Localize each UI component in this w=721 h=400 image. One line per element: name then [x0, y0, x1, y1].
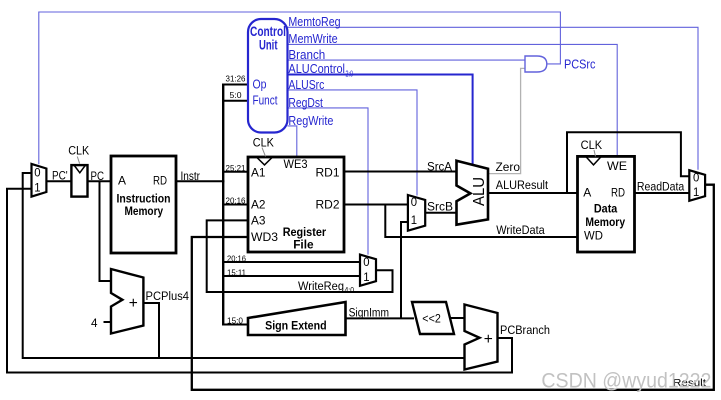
wire ALUResult to data memory A — [488, 192, 578, 194]
svg-text:WE3: WE3 — [284, 157, 308, 171]
wire PCSrc (blue: AND output to PC mux select) — [39, 12, 561, 164]
adder PCPlus4 — [111, 269, 143, 334]
svg-text:CLK: CLK — [581, 138, 603, 152]
wire SrcB (mux output to ALU) — [425, 212, 457, 214]
register PC — [71, 165, 87, 197]
svg-text:4:0: 4:0 — [345, 285, 355, 295]
svg-text:15:0: 15:0 — [227, 316, 243, 326]
svg-text:WD: WD — [584, 229, 603, 243]
svg-text:WE: WE — [607, 159, 627, 173]
wire ALUResult bypass over data memory to result mux input 0 — [567, 132, 689, 193]
svg-text:SrcB: SrcB — [427, 200, 453, 214]
svg-text:MemtoReg: MemtoReg — [288, 14, 340, 29]
wire Op stub 31:26 into control unit — [222, 84, 248, 86]
svg-text:Memory: Memory — [585, 215, 625, 229]
svg-text:CSDN @wyud1222: CSDN @wyud1222 — [541, 369, 711, 393]
svg-text:25:21: 25:21 — [226, 163, 246, 173]
wire WriteData (RD2 tap down to data memory WD) — [385, 205, 577, 238]
shifter left 2 — [412, 302, 454, 334]
svg-text:ALUSrc: ALUSrc — [288, 77, 324, 92]
svg-text:RD: RD — [611, 186, 625, 200]
svg-text:RD: RD — [153, 174, 167, 188]
svg-text:A: A — [583, 186, 592, 200]
svg-text:5:0: 5:0 — [230, 90, 242, 100]
svg-text:A1: A1 — [251, 166, 266, 180]
wire MemtoReg (blue: control to result mux select) — [288, 27, 699, 170]
wire RegWrite (blue: control to register file WE3) — [288, 126, 297, 157]
svg-text:Data: Data — [594, 201, 618, 215]
svg-text:RegDst: RegDst — [288, 95, 323, 110]
svg-text:RegWrite: RegWrite — [288, 113, 333, 128]
memory Instruction Memory — [111, 156, 176, 253]
svg-text:Op: Op — [253, 77, 267, 92]
svg-text:SrcA: SrcA — [427, 160, 453, 174]
wire A2 stub 20:16 — [222, 204, 248, 206]
wire PCBranch (branch adder output, bottom return to PC mux input 1) — [7, 189, 512, 373]
svg-text:ALU: ALU — [471, 177, 488, 206]
register file — [248, 157, 344, 252]
wire WriteReg loop (mux output back to A3) — [207, 220, 393, 292]
mux PC source (0/1) — [32, 164, 47, 197]
svg-text:0: 0 — [34, 165, 41, 179]
wire ALUControl 2:0 (blue bus: control to ALU) — [288, 75, 473, 165]
svg-text:0: 0 — [693, 170, 700, 184]
svg-text:PCBranch: PCBranch — [500, 323, 550, 337]
svg-text:A2: A2 — [251, 198, 266, 212]
svg-text:RD2: RD2 — [316, 198, 340, 212]
wire Instr (instruction memory RD output) — [176, 180, 225, 182]
wire MemWrite (blue: control to data memory WE) — [288, 44, 618, 156]
adder PCBranch — [465, 305, 498, 370]
mux WriteReg (0/1) — [360, 255, 376, 286]
svg-text:<<2: <<2 — [422, 312, 441, 326]
svg-text:Instruction: Instruction — [117, 191, 171, 205]
svg-text:PCPlus4: PCPlus4 — [146, 289, 190, 303]
svg-text:1: 1 — [34, 180, 40, 194]
wire constant 4 stub into PCPlus4 adder — [104, 321, 112, 323]
mux Result (0/1) — [689, 170, 705, 201]
svg-text:20:16: 20:16 — [227, 253, 246, 263]
wire A1 stub 25:21 — [222, 171, 248, 173]
wire PC (PC register to instruction memory A) — [88, 180, 112, 182]
wire 15:11 to WriteReg mux input 1 — [223, 275, 361, 277]
svg-text:20:16: 20:16 — [226, 195, 246, 205]
mux SrcB (0/1) — [408, 195, 425, 231]
wire Branch (blue: control to AND gate input) — [288, 59, 526, 61]
wire RegDst (blue: control to WriteReg mux select) — [288, 108, 369, 255]
wire RD2 to SrcB mux input 0 — [344, 204, 408, 206]
wire shifter output to branch adder — [450, 317, 465, 319]
svg-text:ALUResult: ALUResult — [496, 178, 549, 192]
svg-text:4: 4 — [91, 316, 98, 330]
svg-text:Instr: Instr — [181, 169, 201, 183]
sign extend unit — [248, 302, 346, 335]
wire SignImm (sign extend output to shifter) — [346, 317, 415, 319]
svg-text:A: A — [118, 174, 127, 188]
svg-text:SignImm: SignImm — [349, 306, 389, 320]
svg-text:ReadData: ReadData — [637, 179, 685, 193]
svg-text:WriteData: WriteData — [496, 223, 545, 237]
memory Data Memory — [578, 156, 635, 252]
alu U2 — [457, 161, 489, 225]
svg-text:Zero: Zero — [496, 160, 521, 174]
svg-text:Sign Extend: Sign Extend — [265, 318, 327, 332]
svg-text:+: + — [484, 331, 493, 348]
svg-text:31:26: 31:26 — [226, 74, 246, 84]
svg-text:RD1: RD1 — [316, 166, 340, 180]
svg-text:0: 0 — [363, 255, 370, 269]
svg-text:A3: A3 — [251, 214, 266, 228]
svg-text:Branch: Branch — [288, 47, 325, 62]
svg-text:Unit: Unit — [259, 38, 278, 53]
wire SignImm tap up to SrcB mux input 1 — [401, 222, 408, 318]
wire instr bus vertical — [222, 85, 224, 325]
svg-text:1: 1 — [693, 185, 699, 199]
wire PC' (mux output to PC register) — [46, 180, 71, 182]
wire ALUSrc (blue: control to SrcB mux select) — [288, 90, 418, 196]
svg-text:ALUControl: ALUControl — [288, 61, 345, 76]
svg-text:2:0: 2:0 — [346, 69, 354, 79]
svg-text:File: File — [293, 237, 314, 251]
wire ReadData to result mux input 1 — [635, 192, 690, 194]
svg-text:1: 1 — [363, 270, 369, 284]
svg-text:1: 1 — [411, 213, 417, 227]
svg-text:WD3: WD3 — [251, 230, 278, 244]
svg-text:PC': PC' — [52, 169, 68, 183]
wire 15:0 stub into sign extend — [222, 324, 248, 326]
svg-text:Memory: Memory — [125, 204, 164, 218]
control unit U1 — [248, 19, 288, 133]
wire 20:16 to WriteReg mux input 0 — [223, 261, 361, 263]
wire PCPlus4 (adder output down to bottom rail) — [143, 303, 159, 358]
svg-text:PCSrc: PCSrc — [564, 56, 596, 71]
svg-text:CLK: CLK — [68, 144, 90, 158]
svg-text:WriteReg: WriteReg — [298, 279, 344, 293]
wire PCPlus4 bottom rail to PC mux input 0 and branch adder — [23, 173, 465, 358]
wire RD1 / SrcA to ALU — [344, 171, 457, 173]
gate AND (PCSrc) — [525, 56, 547, 72]
wire Zero (gray: ALU zero flag to AND gate) — [488, 68, 525, 173]
wire Result bus (mux output, bottom return to WD3) — [192, 185, 714, 390]
svg-text:CLK: CLK — [253, 136, 275, 150]
svg-text:PC: PC — [91, 169, 105, 183]
svg-text:15:11: 15:11 — [227, 267, 246, 277]
svg-text:Funct: Funct — [253, 93, 278, 108]
svg-text:0: 0 — [411, 195, 418, 209]
wire PC tap down to PCPlus4 adder — [100, 181, 112, 281]
svg-text:+: + — [129, 295, 138, 312]
svg-text:MemWrite: MemWrite — [288, 31, 337, 46]
wire Funct stub 5:0 into control unit — [222, 100, 248, 102]
